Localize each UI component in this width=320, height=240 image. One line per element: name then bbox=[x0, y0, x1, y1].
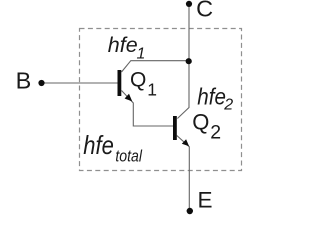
svg-text:E: E bbox=[198, 188, 213, 213]
svg-text:hfe: hfe bbox=[108, 33, 138, 57]
svg-text:1: 1 bbox=[137, 46, 146, 63]
svg-text:total: total bbox=[115, 146, 143, 165]
svg-text:1: 1 bbox=[147, 79, 157, 99]
svg-text:hfe: hfe bbox=[83, 130, 114, 160]
svg-text:2: 2 bbox=[210, 122, 221, 144]
svg-text:B: B bbox=[16, 68, 32, 94]
svg-text:C: C bbox=[196, 0, 213, 22]
svg-text:2: 2 bbox=[223, 97, 233, 114]
svg-text:Q: Q bbox=[130, 69, 146, 92]
svg-text:Q: Q bbox=[192, 110, 209, 135]
svg-text:hfe: hfe bbox=[197, 84, 226, 110]
